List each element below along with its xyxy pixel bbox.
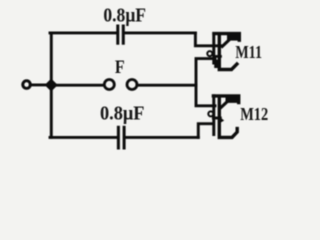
receiver M12 right bar: [219, 99, 237, 137]
svg-text:0.8μF: 0.8μF: [100, 103, 145, 125]
receiver M11 left bar: [212, 34, 215, 64]
svg-text:M12: M12: [240, 104, 268, 124]
receiver M12 gate circle: [208, 111, 213, 116]
wire step up to M12 lower lead: [198, 124, 213, 138]
receiver M11 gate circle: [207, 51, 212, 56]
receiver M12 rung arrow tip: [221, 118, 224, 123]
receiver M12 left bar: [212, 96, 215, 135]
wire step down to M11 upper lead: [195, 33, 221, 46]
receiver M12 top-right fill and diagonal: [226, 97, 240, 103]
svg-text:M11: M11: [235, 42, 262, 62]
wire fuse to riser: [137, 84, 196, 87]
wire bottom rail right of capacitor: [126, 136, 199, 139]
svg-text:0.8μF: 0.8μF: [103, 5, 146, 27]
fuse F right circle: [127, 80, 137, 90]
wire top rail: [50, 31, 116, 34]
capacitor C2 plates: [117, 127, 120, 148]
svg-text:F: F: [115, 57, 125, 78]
wire middle branch junction to fuse: [51, 84, 103, 87]
node junction dot: [45, 79, 57, 91]
receiver M11 top bar: [214, 34, 239, 41]
wire left bus vertical: [50, 33, 53, 137]
capacitor C1 plates: [116, 26, 119, 43]
wire bottom rail: [50, 136, 117, 139]
receiver M11 top-right fill and diagonal: [227, 35, 241, 41]
wire riser to M11 lower lead and M12 upper lead: [196, 59, 215, 106]
input terminal circle: [23, 81, 31, 89]
receiver M12 top bar: [213, 96, 238, 103]
wire top rail right of capacitor: [125, 31, 196, 34]
receiver M11 right bar: [219, 37, 237, 70]
receiver M11 mid rung: [214, 55, 221, 58]
fuse F left circle: [104, 80, 114, 90]
wire input to junction: [30, 83, 49, 86]
receiver M11 inner box: [214, 60, 220, 68]
receiver M12 mid rung: [213, 117, 220, 120]
